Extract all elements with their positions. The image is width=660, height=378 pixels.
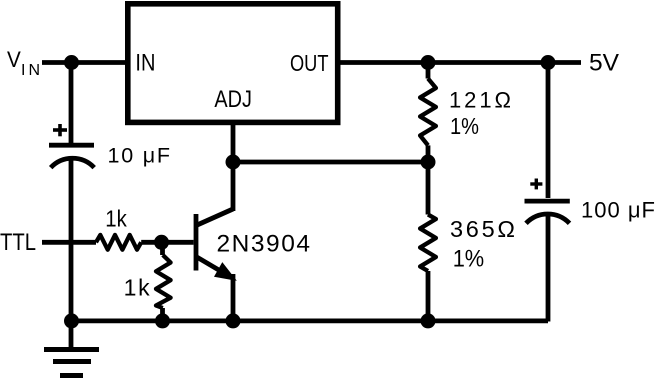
svg-text:10 μF: 10 μF	[108, 143, 171, 167]
svg-text:TTL: TTL	[0, 229, 36, 256]
svg-text:ADJ: ADJ	[214, 86, 252, 113]
svg-text:1%: 1%	[453, 246, 485, 273]
svg-text:V: V	[7, 47, 21, 72]
svg-text:100 μF: 100 μF	[581, 197, 655, 222]
svg-text:5V: 5V	[589, 50, 619, 77]
svg-text:IN: IN	[135, 50, 155, 77]
svg-text:IN: IN	[21, 62, 40, 79]
svg-text:121Ω: 121Ω	[449, 88, 511, 113]
svg-text:1k: 1k	[105, 206, 127, 232]
svg-text:OUT: OUT	[290, 50, 329, 76]
svg-text:1%: 1%	[450, 113, 479, 139]
svg-text:365Ω: 365Ω	[450, 216, 515, 242]
